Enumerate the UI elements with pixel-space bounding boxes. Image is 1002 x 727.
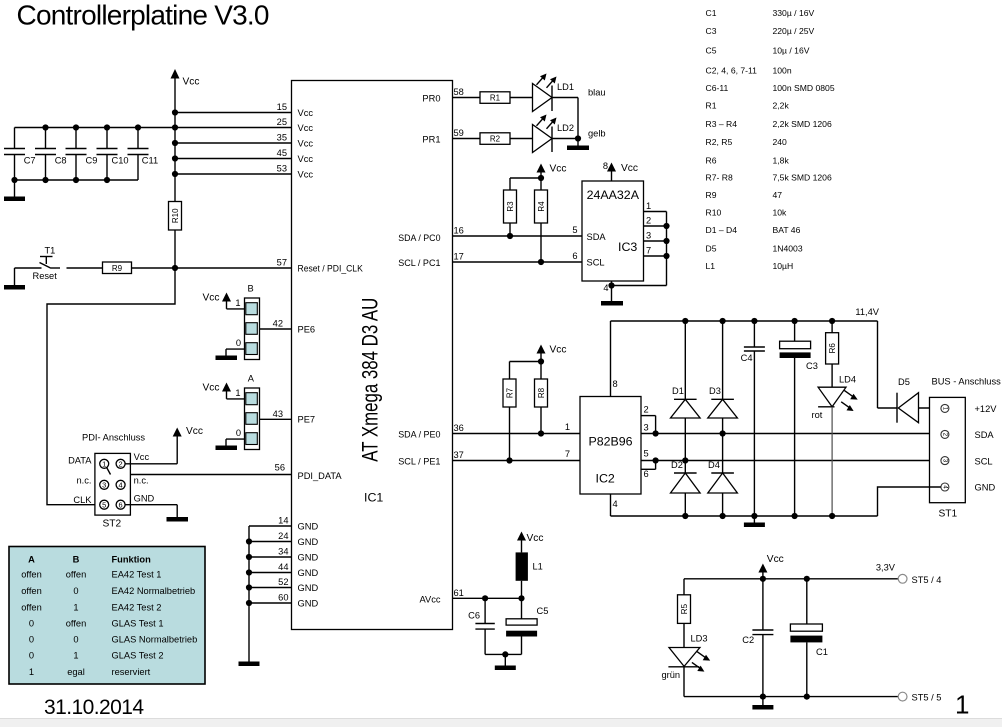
svg-text:R1: R1 bbox=[706, 101, 717, 111]
svg-text:R3 – R4: R3 – R4 bbox=[706, 119, 738, 129]
svg-text:24AA32A: 24AA32A bbox=[587, 188, 640, 202]
capacitor C3 (polarized) bbox=[780, 321, 818, 519]
svg-text:14: 14 bbox=[278, 516, 288, 526]
svg-text:T1: T1 bbox=[45, 246, 56, 256]
svg-text:1: 1 bbox=[235, 388, 240, 398]
svg-text:LD4: LD4 bbox=[839, 375, 856, 385]
svg-text:R6: R6 bbox=[706, 156, 717, 166]
wire IC1 pin 60 GND bbox=[249, 593, 318, 609]
svg-text:C8: C8 bbox=[55, 155, 67, 165]
transistor Q1 : push button T1 bbox=[15, 246, 103, 282]
svg-text:ST5 / 5: ST5 / 5 bbox=[912, 693, 942, 703]
svg-text:2: 2 bbox=[119, 460, 123, 469]
svg-text:R9: R9 bbox=[112, 264, 123, 273]
wire IC1 pin 25 Vcc (and C7-C11 top rail) bbox=[15, 117, 314, 133]
svg-text:1: 1 bbox=[73, 603, 78, 613]
svg-text:reserviert: reserviert bbox=[112, 667, 151, 677]
svg-text:PR0: PR0 bbox=[422, 94, 440, 104]
wire 3.3V bottom rail bbox=[684, 694, 899, 700]
LED LD4 bbox=[812, 375, 858, 421]
node AVcc junctions bbox=[482, 595, 525, 601]
svg-text:R8: R8 bbox=[537, 387, 546, 398]
connector ST1 BUS bbox=[930, 377, 1002, 520]
svg-text:GND: GND bbox=[975, 483, 996, 493]
svg-text:Vcc: Vcc bbox=[298, 108, 314, 118]
svg-text:GND: GND bbox=[298, 537, 319, 547]
svg-text:2,2k SMD 1206: 2,2k SMD 1206 bbox=[773, 119, 832, 129]
svg-text:R4: R4 bbox=[537, 201, 546, 212]
svg-text:R5: R5 bbox=[680, 603, 689, 614]
svg-text:16: 16 bbox=[454, 226, 464, 236]
svg-text:D1 – D4: D1 – D4 bbox=[706, 225, 738, 235]
svg-text:1: 1 bbox=[955, 690, 969, 720]
op-amp U2 : bus buffer IC2 body bbox=[565, 397, 641, 495]
svg-text:SCL: SCL bbox=[975, 456, 993, 466]
svg-text:35: 35 bbox=[277, 133, 287, 143]
svg-text:R2, R5: R2, R5 bbox=[706, 137, 733, 147]
svg-text:56: 56 bbox=[275, 463, 285, 473]
svg-text:Vcc: Vcc bbox=[186, 426, 203, 437]
resistor R10 bbox=[169, 202, 182, 269]
svg-text:Vcc: Vcc bbox=[550, 164, 567, 175]
wire IC1 pin 15 Vcc bbox=[175, 102, 313, 118]
svg-text:5: 5 bbox=[644, 449, 649, 459]
wire IC1 pin 59 PR1 bbox=[422, 128, 480, 145]
resistor R7 bbox=[503, 379, 516, 464]
svg-text:3: 3 bbox=[646, 231, 651, 241]
svg-text:100n: 100n bbox=[773, 66, 792, 76]
wire IC2 pin 8 to 11.4V rail bbox=[611, 321, 618, 397]
wire IC3 pin 3 bbox=[644, 231, 670, 245]
node Vcc rail junctions bbox=[172, 109, 178, 177]
wire IC3 pin 4 to ground bbox=[603, 281, 614, 301]
node gelb junction bbox=[552, 135, 581, 141]
wire LD1 to gelb node bbox=[552, 98, 578, 139]
svg-text:220µ / 25V: 220µ / 25V bbox=[773, 26, 815, 36]
svg-text:C3: C3 bbox=[706, 26, 717, 36]
svg-text:A: A bbox=[248, 374, 255, 384]
wire IC1 pin 52 GND bbox=[249, 577, 318, 593]
wire junction to ST2 CLK bbox=[47, 268, 175, 505]
svg-text:5: 5 bbox=[572, 225, 577, 235]
svg-text:GLAS Test 2: GLAS Test 2 bbox=[112, 651, 164, 661]
svg-text:C11: C11 bbox=[142, 155, 158, 165]
svg-text:LD1: LD1 bbox=[557, 82, 574, 92]
svg-text:6: 6 bbox=[572, 251, 577, 261]
op-amp U1 : microcontroller IC1 body bbox=[292, 81, 453, 630]
svg-text:C1: C1 bbox=[816, 647, 828, 657]
svg-text:2,2k: 2,2k bbox=[773, 101, 790, 111]
svg-text:D1: D1 bbox=[672, 386, 684, 396]
svg-text:SDA: SDA bbox=[975, 430, 995, 440]
wire D1 to SCL node bbox=[682, 418, 688, 473]
resistor R9 bbox=[103, 262, 132, 274]
svg-text:AVcc: AVcc bbox=[419, 594, 440, 604]
svg-text:PR1: PR1 bbox=[422, 135, 440, 145]
resistor R8 bbox=[535, 379, 548, 437]
wire IC1 pin 53 Vcc bbox=[175, 164, 313, 180]
connector jumper B bbox=[235, 284, 259, 360]
svg-text:C5: C5 bbox=[706, 46, 717, 56]
svg-text:GND: GND bbox=[298, 598, 319, 608]
svg-text:offen: offen bbox=[21, 586, 42, 596]
svg-text:PE6: PE6 bbox=[298, 324, 316, 334]
diode D5 bbox=[878, 377, 941, 423]
svg-text:C6: C6 bbox=[468, 611, 480, 621]
svg-text:GND: GND bbox=[298, 568, 319, 578]
ground (ST2) bbox=[167, 517, 189, 522]
wire IC3 pin 2 bbox=[644, 216, 670, 230]
wire IC2 pin 4 to bottom rail bbox=[611, 494, 618, 516]
parts list bbox=[706, 8, 835, 271]
wire IC2 pin 3 SDA to ST1 bbox=[641, 422, 941, 436]
ground (jumper A) bbox=[216, 446, 238, 451]
svg-text:15: 15 bbox=[277, 102, 287, 112]
wire IC1 pin 34 GND bbox=[249, 547, 318, 563]
inductor L1 bbox=[516, 552, 543, 598]
wire IC2 pin 5 SCL to ST1 bbox=[641, 449, 941, 464]
svg-text:1: 1 bbox=[29, 667, 34, 677]
svg-text:0: 0 bbox=[236, 428, 241, 438]
wire C5/C6 bottom node bbox=[485, 651, 521, 665]
power Vcc arrow (R3/R4) bbox=[537, 164, 567, 179]
svg-text:BAT 46: BAT 46 bbox=[773, 225, 801, 235]
ground (Reset) bbox=[4, 268, 25, 290]
connector jumper A bbox=[235, 374, 259, 450]
node junction R9/R10/pin57 bbox=[172, 265, 178, 271]
ground (AVcc filter) bbox=[495, 666, 516, 671]
svg-text:SDA / PE0: SDA / PE0 bbox=[398, 430, 440, 440]
svg-text:1N4003: 1N4003 bbox=[773, 244, 803, 254]
svg-text:ST1: ST1 bbox=[939, 509, 958, 520]
svg-text:59: 59 bbox=[454, 128, 464, 138]
svg-text:P82B96: P82B96 bbox=[588, 435, 632, 449]
wire IC1 pin 36 SDA/PE0 to IC2 pin 1 bbox=[398, 423, 580, 440]
wire IC1 pin 16 SDA/PC0 to IC3 pin 5 bbox=[398, 226, 582, 243]
svg-text:D2: D2 bbox=[671, 460, 683, 470]
capacitor C7 bbox=[4, 128, 36, 181]
svg-text:SCL / PE1: SCL / PE1 bbox=[398, 457, 440, 467]
svg-text:R3: R3 bbox=[506, 201, 515, 212]
svg-text:C1: C1 bbox=[706, 8, 717, 18]
ground (GND bus) bbox=[239, 662, 260, 667]
svg-text:IC3: IC3 bbox=[618, 240, 637, 254]
wire IC1 pin 44 GND bbox=[249, 562, 318, 578]
svg-text:B: B bbox=[73, 555, 80, 565]
svg-text:grün: grün bbox=[662, 670, 681, 680]
wire IC1 pin 45 Vcc bbox=[175, 148, 313, 164]
wire ST2 pin1 to PDI_DATA bbox=[107, 467, 111, 474]
wire LD3 to bottom rail bbox=[683, 667, 685, 697]
Vcc arrow top left bbox=[171, 69, 200, 202]
svg-text:7: 7 bbox=[565, 449, 570, 459]
svg-text:7,5k SMD 1206: 7,5k SMD 1206 bbox=[773, 173, 832, 183]
svg-text:PDI- Anschluss: PDI- Anschluss bbox=[82, 433, 145, 443]
svg-text:Vcc: Vcc bbox=[298, 123, 314, 133]
svg-text:C2, 4, 6, 7-11: C2, 4, 6, 7-11 bbox=[706, 66, 758, 76]
capacitor C5 (polarized) bbox=[506, 598, 548, 654]
svg-text:B: B bbox=[248, 284, 254, 294]
svg-text:47: 47 bbox=[773, 190, 783, 200]
svg-text:SDA / PC0: SDA / PC0 bbox=[398, 233, 440, 243]
svg-text:Vcc: Vcc bbox=[621, 163, 638, 174]
resistor R5 bbox=[678, 579, 691, 648]
wire IC3 pin 1 bbox=[644, 201, 667, 212]
svg-text:D3: D3 bbox=[709, 386, 721, 396]
op-amp U3 : EEPROM IC3 body bbox=[572, 181, 643, 281]
svg-text:1: 1 bbox=[235, 298, 240, 308]
svg-text:4: 4 bbox=[603, 283, 608, 293]
svg-text:GND: GND bbox=[298, 583, 319, 593]
svg-text:0: 0 bbox=[29, 635, 34, 645]
svg-text:1: 1 bbox=[565, 422, 570, 432]
svg-text:10µ / 16V: 10µ / 16V bbox=[773, 46, 810, 56]
wire D3 to SDA node bbox=[720, 418, 726, 473]
wire IC1 pin 61 AVcc bbox=[419, 588, 521, 605]
diode D4 bbox=[708, 460, 738, 519]
svg-text:25: 25 bbox=[277, 117, 287, 127]
svg-text:6: 6 bbox=[644, 469, 649, 479]
capacitor C10 bbox=[97, 128, 129, 181]
svg-text:C9: C9 bbox=[86, 155, 98, 165]
svg-text:57: 57 bbox=[277, 258, 287, 268]
svg-text:PE7: PE7 bbox=[298, 415, 316, 425]
wire IC1 pin 37 SCL/PE1 to IC2 pin 7 bbox=[398, 450, 580, 467]
svg-text:0: 0 bbox=[73, 635, 78, 645]
svg-text:0: 0 bbox=[29, 619, 34, 629]
wire 11.4V top rail bbox=[611, 307, 880, 408]
svg-text:6: 6 bbox=[119, 501, 123, 510]
wire IC1 pin 17 SCL/PC1 to IC3 pin 6 bbox=[398, 252, 582, 269]
svg-text:GLAS Normalbetrieb: GLAS Normalbetrieb bbox=[112, 635, 198, 645]
resistor R2 bbox=[480, 133, 533, 145]
svg-text:10k: 10k bbox=[773, 208, 788, 218]
wire IC2 pin 6 bbox=[641, 461, 656, 480]
svg-text:Vcc: Vcc bbox=[767, 554, 784, 565]
svg-text:offen: offen bbox=[66, 619, 87, 629]
svg-text:37: 37 bbox=[454, 450, 464, 460]
wire IC1 pin 24 GND bbox=[249, 531, 318, 547]
svg-text:C10: C10 bbox=[112, 155, 129, 165]
node ST5/4 terminal bbox=[898, 574, 941, 584]
ground (bottom rail) bbox=[744, 516, 765, 527]
power Vcc arrow (R7/R8) bbox=[537, 345, 567, 362]
svg-text:Reset: Reset bbox=[33, 271, 58, 281]
svg-text:EA42 Test 2: EA42 Test 2 bbox=[112, 603, 162, 613]
svg-text:7: 7 bbox=[646, 246, 651, 256]
svg-text:330µ / 16V: 330µ / 16V bbox=[773, 8, 815, 18]
svg-text:3,3V: 3,3V bbox=[876, 563, 896, 573]
svg-text:ST2: ST2 bbox=[103, 519, 122, 530]
power Vcc arrow (jumper B) bbox=[203, 293, 245, 309]
svg-text:31.10.2014: 31.10.2014 bbox=[44, 696, 144, 719]
svg-text:GLAS Test 1: GLAS Test 1 bbox=[112, 619, 164, 629]
svg-text:R1: R1 bbox=[490, 94, 501, 103]
svg-text:4: 4 bbox=[613, 499, 618, 509]
diode D2 bbox=[671, 460, 701, 519]
svg-text:offen: offen bbox=[21, 570, 42, 580]
svg-text:L1: L1 bbox=[706, 261, 716, 271]
svg-text:PDI_DATA: PDI_DATA bbox=[298, 471, 343, 481]
wire IC1 pin 42 PE6 bbox=[260, 319, 316, 335]
svg-text:IC2: IC2 bbox=[596, 472, 615, 486]
power Vcc arrow (3.3V rail) bbox=[758, 554, 783, 579]
wire capacitor bottom rail bbox=[11, 177, 138, 183]
svg-text:CLK: CLK bbox=[73, 495, 92, 505]
svg-text:R10: R10 bbox=[171, 208, 180, 223]
svg-text:LD2: LD2 bbox=[557, 123, 574, 133]
svg-text:5: 5 bbox=[102, 501, 106, 510]
svg-text:52: 52 bbox=[278, 577, 288, 587]
svg-text:L1: L1 bbox=[533, 562, 543, 572]
svg-text:egal: egal bbox=[67, 667, 85, 677]
svg-text:EA42 Test 1: EA42 Test 1 bbox=[112, 570, 162, 580]
svg-text:1,8k: 1,8k bbox=[773, 156, 790, 166]
capacitor C11 bbox=[128, 128, 159, 181]
diode D3 bbox=[708, 321, 738, 418]
svg-text:C3: C3 bbox=[806, 361, 818, 371]
svg-text:R2: R2 bbox=[490, 135, 501, 144]
svg-text:GND: GND bbox=[134, 494, 155, 504]
node R3/R4 Vcc junction bbox=[510, 175, 544, 190]
ground (3.3V block) bbox=[752, 697, 773, 710]
wire jumper A pin 0 to ground bbox=[226, 439, 245, 445]
svg-text:GND: GND bbox=[298, 552, 319, 562]
svg-text:0: 0 bbox=[73, 586, 78, 596]
wire 3.3V rail bbox=[684, 563, 899, 582]
svg-text:24: 24 bbox=[278, 531, 288, 541]
svg-text:17: 17 bbox=[454, 252, 464, 262]
svg-text:3: 3 bbox=[102, 481, 106, 490]
svg-text:D4: D4 bbox=[708, 460, 720, 470]
svg-text:rot: rot bbox=[812, 410, 823, 420]
svg-text:SDA: SDA bbox=[587, 232, 607, 242]
svg-text:0: 0 bbox=[29, 651, 34, 661]
svg-text:11,4V: 11,4V bbox=[855, 307, 879, 317]
svg-text:LD3: LD3 bbox=[691, 633, 708, 643]
wire jumper B pin 0 to ground bbox=[226, 349, 245, 355]
svg-text:C5: C5 bbox=[537, 606, 549, 616]
svg-text:DATA: DATA bbox=[68, 455, 92, 465]
svg-text:n.c.: n.c. bbox=[77, 475, 92, 485]
wire IC3 pin 7 bbox=[644, 246, 670, 260]
svg-text:ST5 / 4: ST5 / 4 bbox=[912, 575, 942, 585]
svg-text:R6: R6 bbox=[828, 343, 837, 354]
svg-text:offen: offen bbox=[66, 570, 87, 580]
svg-text:GND: GND bbox=[298, 521, 319, 531]
svg-text:53: 53 bbox=[277, 164, 287, 174]
wire IC1 pin 35 Vcc bbox=[175, 133, 313, 149]
svg-text:C6-11: C6-11 bbox=[706, 83, 729, 93]
capacitor C1 (polarized) bbox=[790, 579, 827, 697]
svg-text:Vcc: Vcc bbox=[550, 345, 567, 356]
svg-text:34: 34 bbox=[278, 547, 288, 557]
svg-text:60: 60 bbox=[278, 593, 288, 603]
node capacitor top rail dots bbox=[42, 124, 141, 130]
svg-text:A: A bbox=[28, 555, 35, 565]
ground (C7-C11) bbox=[4, 180, 25, 201]
resistor R3 bbox=[504, 190, 517, 239]
svg-text:Vcc: Vcc bbox=[134, 452, 150, 462]
jumper function table bbox=[9, 547, 205, 685]
svg-text:offen: offen bbox=[21, 603, 42, 613]
svg-text:Vcc: Vcc bbox=[183, 77, 200, 88]
svg-text:C2: C2 bbox=[742, 635, 754, 645]
svg-text:Vcc: Vcc bbox=[203, 293, 220, 304]
wire IC2 pin 2 bbox=[641, 405, 656, 434]
resistor R6 bbox=[826, 321, 839, 387]
ground (jumper B) bbox=[216, 356, 238, 361]
power Vcc arrow (IC3 pin 8) bbox=[603, 161, 638, 181]
wire ST2 pin2 to Vcc bbox=[125, 435, 178, 464]
power Vcc arrow (ST2) bbox=[173, 426, 203, 437]
svg-text:58: 58 bbox=[454, 87, 464, 97]
wire IC3 right bus down to pin 4 bbox=[612, 212, 667, 286]
capacitor C2 bbox=[742, 579, 773, 697]
svg-text:Vcc: Vcc bbox=[298, 138, 314, 148]
svg-text:SCL / PC1: SCL / PC1 bbox=[398, 258, 440, 268]
node ST5/5 terminal bbox=[898, 692, 941, 702]
LED LD3 bbox=[662, 633, 711, 680]
connector ST2 PDI bbox=[68, 433, 154, 530]
svg-text:3: 3 bbox=[644, 422, 649, 432]
svg-text:SCL: SCL bbox=[587, 257, 605, 267]
svg-text:gelb: gelb bbox=[588, 129, 606, 139]
svg-text:Vcc: Vcc bbox=[298, 169, 314, 179]
svg-text:2: 2 bbox=[644, 405, 649, 415]
capacitor C4 bbox=[741, 321, 765, 519]
bottom gray strip bbox=[0, 719, 1002, 727]
svg-text:D5: D5 bbox=[898, 377, 910, 387]
svg-text:1: 1 bbox=[73, 651, 78, 661]
wire IC1 pin 43 PE7 bbox=[260, 409, 316, 425]
svg-text:Funktion: Funktion bbox=[112, 555, 152, 565]
svg-text:1: 1 bbox=[646, 201, 651, 211]
capacitor C9 bbox=[66, 128, 98, 181]
svg-text:R9: R9 bbox=[706, 190, 717, 200]
svg-text:blau: blau bbox=[588, 88, 606, 98]
resistor R4 bbox=[535, 190, 548, 265]
svg-text:8: 8 bbox=[613, 379, 618, 389]
svg-text:43: 43 bbox=[273, 409, 283, 419]
svg-text:C7: C7 bbox=[24, 155, 36, 165]
wire LD4 cathode to bottom rail (gray) bbox=[829, 407, 835, 519]
power Vcc arrow (jumper A) bbox=[203, 383, 245, 399]
svg-text:36: 36 bbox=[454, 423, 464, 433]
LED LD1 bbox=[533, 74, 606, 112]
svg-text:IC1: IC1 bbox=[364, 491, 383, 505]
svg-text:n.c.: n.c. bbox=[134, 475, 149, 485]
svg-text:100n SMD 0805: 100n SMD 0805 bbox=[773, 83, 835, 93]
svg-text:+12V: +12V bbox=[975, 404, 998, 414]
svg-text:61: 61 bbox=[454, 588, 464, 598]
svg-text:4: 4 bbox=[119, 481, 123, 490]
svg-text:240: 240 bbox=[773, 137, 788, 147]
svg-text:10µH: 10µH bbox=[773, 261, 794, 271]
svg-text:Reset / PDI_CLK: Reset / PDI_CLK bbox=[298, 263, 364, 273]
node GND bus left of IC1 bbox=[246, 526, 252, 662]
svg-text:AT Xmega 384 D3 AU: AT Xmega 384 D3 AU bbox=[358, 298, 383, 462]
diode D1 bbox=[671, 321, 701, 418]
capacitor C8 bbox=[35, 128, 67, 181]
LED LD2 bbox=[533, 115, 606, 153]
svg-text:Controllerplatine V3.0: Controllerplatine V3.0 bbox=[17, 0, 270, 31]
svg-text:1: 1 bbox=[102, 460, 106, 469]
wire IC1 pin 58 PR0 bbox=[422, 87, 480, 104]
svg-text:45: 45 bbox=[277, 148, 287, 158]
svg-text:BUS - Anschluss: BUS - Anschluss bbox=[932, 377, 1002, 387]
svg-text:R7: R7 bbox=[505, 387, 514, 398]
